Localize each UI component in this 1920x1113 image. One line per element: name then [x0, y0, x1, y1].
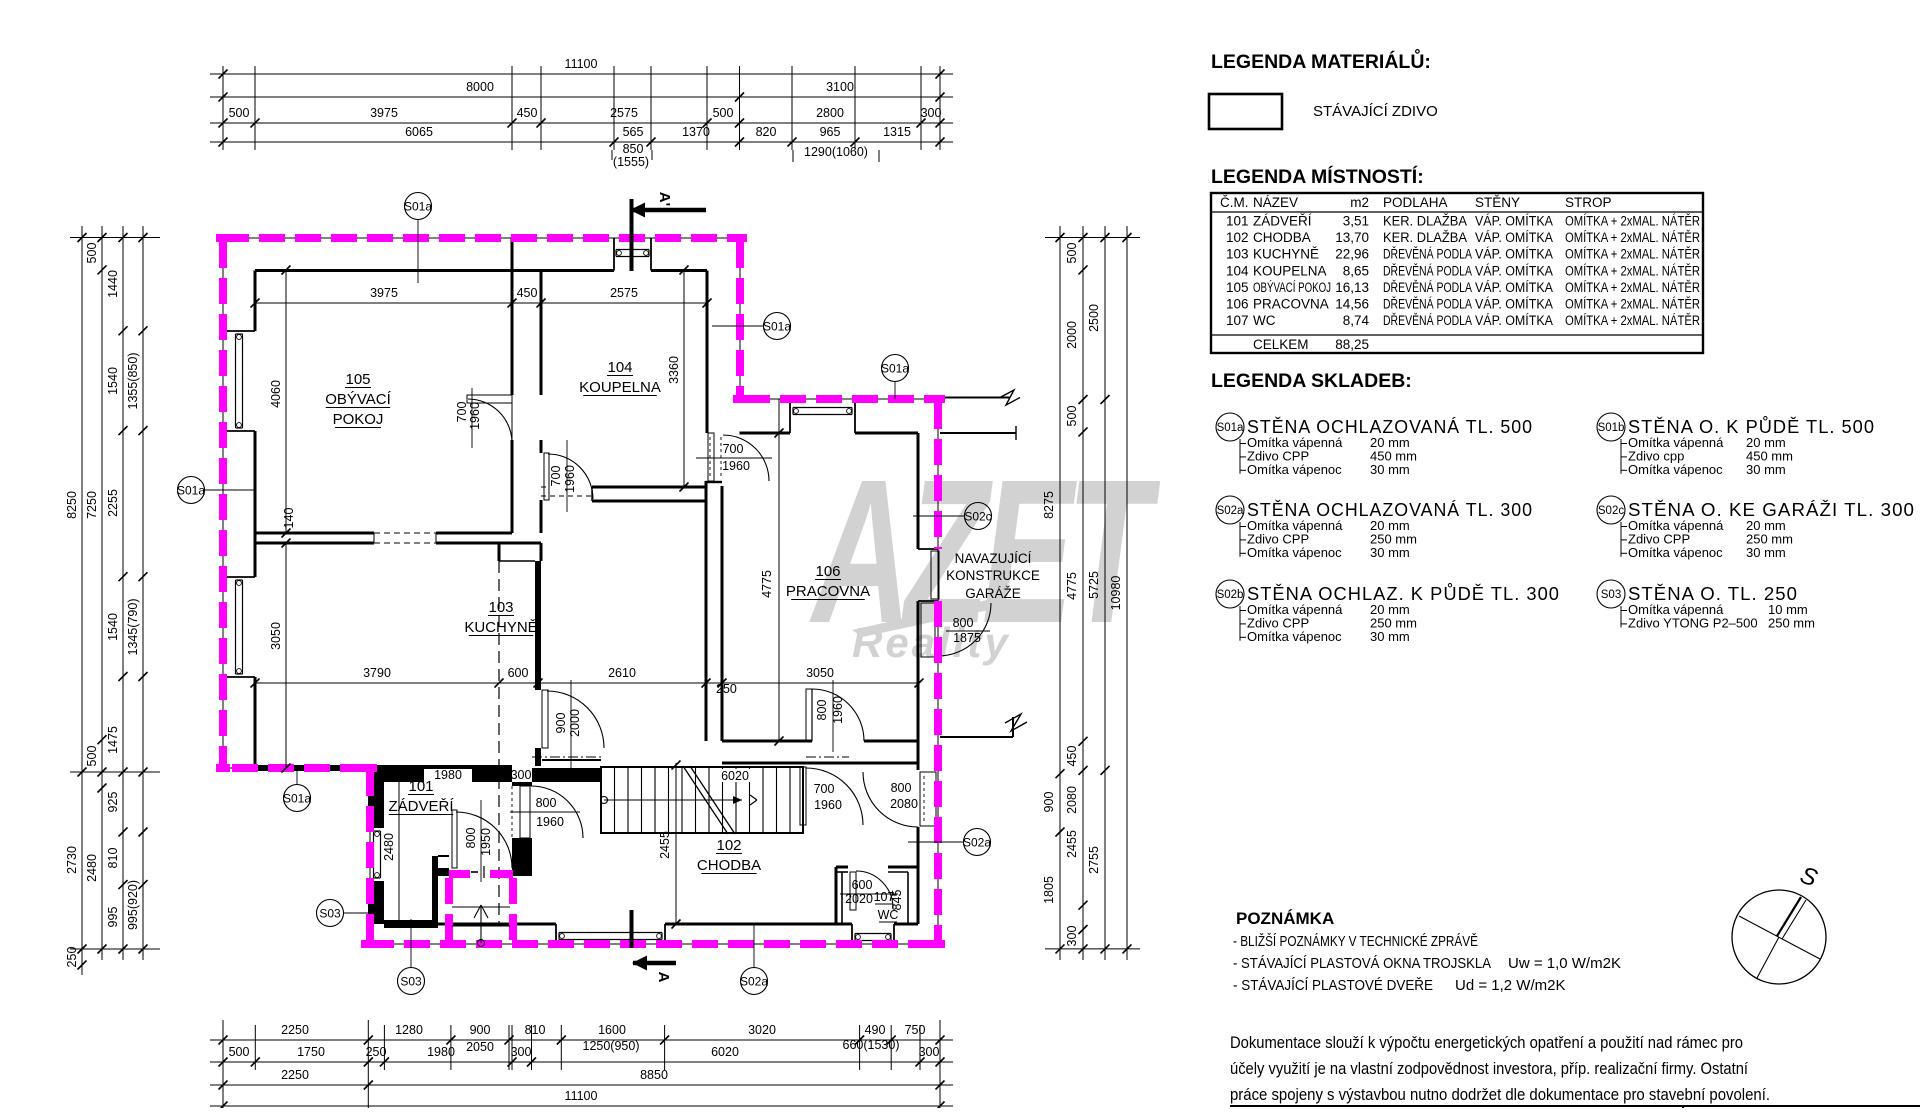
- marker S02a bottom: [740, 924, 768, 995]
- svg-text:1370: 1370: [682, 125, 710, 139]
- svg-text:1980: 1980: [427, 1045, 455, 1059]
- svg-text:S01a: S01a: [404, 200, 432, 214]
- svg-text:10980: 10980: [1109, 576, 1123, 611]
- marker S03 left: [317, 900, 369, 927]
- interior dimension row 3790/600/2610/250/3050: [251, 666, 924, 696]
- kuchyne east walls: [499, 543, 541, 924]
- svg-text:995(920): 995(920): [126, 880, 140, 930]
- svg-text:8275: 8275: [1042, 491, 1056, 519]
- room 106 pracovna: [786, 563, 870, 600]
- svg-text:OMÍTKA + 2xMAL. NÁTĚR: OMÍTKA + 2xMAL. NÁTĚR: [1565, 280, 1700, 295]
- svg-text:- STÁVAJÍCÍ PLASTOVÉ DVEŘE: - STÁVAJÍCÍ PLASTOVÉ DVEŘE: [1233, 977, 1433, 994]
- svg-text:450: 450: [1065, 746, 1079, 767]
- svg-text:OMÍTKA + 2xMAL. NÁTĚR: OMÍTKA + 2xMAL. NÁTĚR: [1565, 214, 1700, 229]
- svg-text:ZÁDVEŘÍ: ZÁDVEŘÍ: [1253, 214, 1312, 229]
- svg-text:S02a: S02a: [1217, 505, 1244, 517]
- svg-text:4060: 4060: [269, 380, 283, 408]
- svg-text:30 mm: 30 mm: [1746, 545, 1786, 560]
- footer note text: [1230, 1033, 1770, 1104]
- marker S01a bottom-left: [283, 771, 311, 812]
- svg-text:Omítka vápenoc: Omítka vápenoc: [1628, 462, 1723, 477]
- svg-text:5725: 5725: [1087, 571, 1101, 599]
- svg-text:102: 102: [1226, 230, 1249, 245]
- svg-text:2455: 2455: [658, 831, 672, 859]
- svg-text:700: 700: [814, 782, 835, 796]
- svg-text:m2: m2: [1350, 195, 1369, 210]
- svg-text:S03: S03: [1601, 589, 1621, 601]
- door garage (800/1875): [921, 603, 991, 657]
- svg-text:DŘEVĚNÁ PODLA: DŘEVĚNÁ PODLA: [1383, 247, 1472, 262]
- svg-text:STĚNY: STĚNY: [1475, 195, 1520, 210]
- svg-text:30 mm: 30 mm: [1370, 629, 1410, 644]
- svg-text:900: 900: [1042, 792, 1056, 813]
- svg-text:1750: 1750: [297, 1045, 325, 1059]
- svg-text:13,70: 13,70: [1335, 230, 1369, 245]
- interior dimension 3050 kuchyne: [269, 539, 291, 773]
- svg-text:CHODBA: CHODBA: [1253, 230, 1311, 245]
- svg-text:845: 845: [890, 890, 904, 911]
- svg-text:600: 600: [508, 666, 529, 680]
- svg-text:OMÍTKA + 2xMAL. NÁTĚR: OMÍTKA + 2xMAL. NÁTĚR: [1565, 247, 1700, 262]
- svg-text:PRACOVNA: PRACOVNA: [786, 583, 870, 600]
- svg-text:1355(850): 1355(850): [126, 353, 140, 410]
- svg-text:16,13: 16,13: [1335, 280, 1369, 295]
- svg-text:2575: 2575: [610, 106, 638, 120]
- garage annex walls: [940, 390, 1027, 737]
- svg-text:2500: 2500: [1087, 304, 1101, 332]
- title block top edge: [1230, 1106, 1920, 1108]
- window wc south: [855, 934, 891, 941]
- dimension 1980 zadveri: [424, 768, 472, 782]
- svg-text:S01a: S01a: [283, 792, 311, 806]
- svg-text:účely využití je na vlastní zo: účely využití je na vlastní zodpovědnost…: [1230, 1059, 1748, 1078]
- svg-text:1980: 1980: [434, 768, 462, 782]
- dimension chain top: [210, 57, 953, 169]
- svg-text:565: 565: [623, 125, 644, 139]
- dimension 300: [511, 768, 532, 782]
- kuchyne south wall: [255, 760, 601, 771]
- room 103 kuchyne: [464, 599, 537, 636]
- svg-text:22,96: 22,96: [1335, 247, 1369, 262]
- compass north arrow: [1732, 862, 1826, 984]
- svg-text:1290(1060): 1290(1060): [804, 145, 868, 159]
- magenta porch outline: [449, 874, 513, 941]
- svg-text:2755: 2755: [1087, 846, 1101, 874]
- dimension chain left: [65, 226, 160, 975]
- svg-text:1250(950): 1250(950): [583, 1039, 640, 1053]
- svg-text:STĚNA OCHLAZOVANÁ TL. 500: STĚNA OCHLAZOVANÁ TL. 500: [1247, 417, 1533, 437]
- marker S02c garage: [913, 503, 992, 530]
- svg-text:490: 490: [865, 1023, 886, 1037]
- svg-text:NAVAZUJÍCÍ: NAVAZUJÍCÍ: [955, 551, 1032, 566]
- svg-text:104: 104: [1226, 263, 1249, 278]
- svg-text:S02c: S02c: [1598, 505, 1624, 517]
- window west 1: [236, 334, 243, 428]
- svg-text:Č.M.: Č.M.: [1220, 195, 1249, 210]
- legend room table: [1211, 193, 1703, 353]
- svg-text:GARÁŽE: GARÁŽE: [965, 586, 1021, 601]
- svg-text:1540: 1540: [106, 613, 120, 641]
- dimension chain right: [1042, 226, 1140, 960]
- legend skladba S02c: [1597, 496, 1915, 560]
- svg-text:STĚNA OCHLAZOVANÁ TL. 300: STĚNA OCHLAZOVANÁ TL. 300: [1247, 500, 1533, 520]
- svg-text:4775: 4775: [1065, 572, 1079, 600]
- svg-text:2455: 2455: [1065, 830, 1079, 858]
- svg-text:1960: 1960: [814, 798, 842, 812]
- door 104 (700/1960) in wall 105/104: [455, 388, 512, 448]
- svg-text:103: 103: [488, 599, 513, 616]
- svg-text:850: 850: [623, 142, 644, 156]
- svg-text:500: 500: [85, 243, 99, 264]
- legend materials text: [1313, 103, 1438, 120]
- door pracovna (800/1960): [806, 680, 864, 752]
- svg-text:DŘEVĚNÁ PODLA: DŘEVĚNÁ PODLA: [1383, 313, 1472, 328]
- svg-text:2255: 2255: [106, 489, 120, 517]
- svg-text:KUCHYNĚ: KUCHYNĚ: [464, 619, 537, 636]
- svg-text:300: 300: [1065, 926, 1079, 947]
- svg-text:3050: 3050: [806, 666, 834, 680]
- svg-text:500: 500: [1065, 406, 1079, 427]
- svg-text:500: 500: [229, 1045, 250, 1059]
- svg-text:965: 965: [820, 125, 841, 139]
- svg-text:2000: 2000: [568, 709, 582, 737]
- door east (800/2080): [863, 772, 936, 827]
- room 102 chodba: [697, 837, 761, 874]
- stairs: [601, 766, 804, 834]
- svg-text:OMÍTKA + 2xMAL. NÁTĚR: OMÍTKA + 2xMAL. NÁTĚR: [1565, 313, 1700, 328]
- svg-text:VÁP. OMÍTKA: VÁP. OMÍTKA: [1475, 263, 1553, 278]
- svg-text:7250: 7250: [85, 491, 99, 519]
- svg-text:800: 800: [464, 828, 478, 849]
- svg-text:LEGENDA MÍSTNOSTÍ:: LEGENDA MÍSTNOSTÍ:: [1211, 165, 1424, 188]
- svg-text:VÁP. OMÍTKA: VÁP. OMÍTKA: [1475, 297, 1553, 312]
- svg-text:30 mm: 30 mm: [1370, 462, 1410, 477]
- svg-text:STĚNA O. KE GARÁŽI TL. 300: STĚNA O. KE GARÁŽI TL. 300: [1628, 500, 1915, 520]
- svg-text:S01a: S01a: [881, 362, 909, 376]
- svg-text:Dokumentace slouží k výpočtu e: Dokumentace slouží k výpočtu energetický…: [1230, 1033, 1743, 1052]
- svg-text:800: 800: [815, 700, 829, 721]
- svg-text:2020: 2020: [845, 892, 873, 906]
- legend skladba S01b: [1597, 413, 1875, 477]
- svg-text:11100: 11100: [565, 1089, 598, 1103]
- svg-text:KOUPELNA: KOUPELNA: [579, 379, 661, 396]
- svg-text:1960: 1960: [563, 465, 577, 493]
- svg-text:6065: 6065: [405, 125, 433, 139]
- legend skladba S03: [1597, 580, 1815, 630]
- svg-text:995: 995: [106, 907, 120, 928]
- svg-text:2250: 2250: [281, 1023, 309, 1037]
- svg-text:STĚNA O. TL. 250: STĚNA O. TL. 250: [1628, 584, 1798, 604]
- window north-right (pracovna): [793, 408, 852, 415]
- svg-text:6020: 6020: [721, 769, 749, 783]
- svg-text:2250: 2250: [281, 1068, 309, 1082]
- door hall to pracovna (700/1960): [696, 433, 772, 481]
- svg-text:8,74: 8,74: [1343, 313, 1370, 328]
- svg-text:Omítka vápenoc: Omítka vápenoc: [1247, 545, 1342, 560]
- legend skladby heading: [1211, 370, 1412, 392]
- svg-text:1315: 1315: [883, 125, 911, 139]
- svg-text:104: 104: [607, 359, 632, 376]
- svg-text:2730: 2730: [65, 846, 79, 874]
- svg-text:107: 107: [1226, 313, 1249, 328]
- svg-text:1280: 1280: [395, 1023, 423, 1037]
- svg-text:500: 500: [85, 746, 99, 767]
- wall between room 105 and 104: [512, 238, 541, 533]
- interior dimension 3360 koupelna: [667, 266, 689, 492]
- svg-text:VÁP. OMÍTKA: VÁP. OMÍTKA: [1475, 214, 1553, 229]
- svg-text:700: 700: [455, 402, 469, 423]
- svg-text:450: 450: [517, 106, 538, 120]
- interior dimension 4060: [269, 266, 291, 538]
- svg-text:250: 250: [366, 1045, 387, 1059]
- room 104 koupelna: [579, 359, 661, 396]
- svg-text:S02a: S02a: [740, 975, 768, 989]
- svg-text:88,25: 88,25: [1335, 337, 1369, 352]
- svg-text:DŘEVĚNÁ PODLA: DŘEVĚNÁ PODLA: [1383, 280, 1472, 295]
- svg-text:11100: 11100: [565, 57, 598, 71]
- svg-text:2610: 2610: [608, 666, 636, 680]
- svg-text:1960: 1960: [722, 459, 750, 473]
- svg-text:Omítka vápenoc: Omítka vápenoc: [1247, 629, 1342, 644]
- svg-text:1875: 1875: [953, 631, 981, 645]
- svg-text:OBÝVACÍ POKOJ: OBÝVACÍ POKOJ: [1253, 280, 1331, 295]
- interior dimension 4775 pracovna: [760, 399, 784, 746]
- window chodba south: [559, 933, 662, 940]
- svg-text:OMÍTKA + 2xMAL. NÁTĚR: OMÍTKA + 2xMAL. NÁTĚR: [1565, 297, 1700, 312]
- svg-text:Reality: Reality: [852, 619, 1011, 666]
- svg-text:500: 500: [713, 106, 734, 120]
- svg-text:S01a: S01a: [177, 484, 205, 498]
- svg-text:140: 140: [282, 508, 296, 529]
- svg-text:300: 300: [511, 768, 532, 782]
- svg-text:8,65: 8,65: [1343, 263, 1369, 278]
- svg-text:105: 105: [1226, 280, 1249, 295]
- svg-text:1440: 1440: [106, 270, 120, 298]
- svg-text:250 mm: 250 mm: [1768, 615, 1815, 630]
- pracovna west wall: [706, 481, 722, 741]
- door wc (600/2020): [840, 871, 898, 910]
- svg-text:2480: 2480: [85, 854, 99, 882]
- svg-text:DŘEVĚNÁ PODLA: DŘEVĚNÁ PODLA: [1383, 297, 1472, 312]
- svg-text:106: 106: [1226, 297, 1249, 312]
- svg-text:KONSTRUKCE: KONSTRUKCE: [946, 568, 1040, 583]
- porch steps and entry arrow: [452, 866, 510, 947]
- svg-text:800: 800: [536, 796, 557, 810]
- svg-text:102: 102: [716, 837, 741, 854]
- svg-text:2575: 2575: [610, 286, 638, 300]
- marker S02a right: [908, 829, 991, 856]
- svg-text:30 mm: 30 mm: [1746, 462, 1786, 477]
- svg-text:3790: 3790: [363, 666, 391, 680]
- svg-text:8000: 8000: [466, 80, 494, 94]
- marker S01a top: [404, 193, 432, 284]
- svg-text:POZNÁMKA: POZNÁMKA: [1236, 909, 1334, 928]
- svg-text:3975: 3975: [370, 106, 398, 120]
- svg-text:- STÁVAJÍCÍ PLASTOVÁ OKNA TROJ: - STÁVAJÍCÍ PLASTOVÁ OKNA TROJSKLA: [1233, 955, 1491, 972]
- svg-text:S03: S03: [400, 975, 422, 989]
- marker S01a left: [177, 477, 255, 504]
- svg-text:WC: WC: [1253, 313, 1276, 328]
- svg-text:3,51: 3,51: [1343, 214, 1369, 229]
- svg-text:750: 750: [905, 1023, 926, 1037]
- svg-text:OBÝVACÍ: OBÝVACÍ: [325, 391, 391, 408]
- door koupelna (700/1960): [544, 440, 593, 512]
- legend materials heading: [1211, 47, 1431, 73]
- svg-text:500: 500: [229, 106, 250, 120]
- svg-text:S02a: S02a: [963, 836, 991, 850]
- svg-text:810: 810: [106, 848, 120, 869]
- svg-text:3100: 3100: [826, 80, 854, 94]
- window zadveri west: [374, 831, 381, 878]
- svg-text:2080: 2080: [890, 797, 918, 811]
- legend skladba S02b: [1216, 580, 1560, 644]
- magenta existing-wall outline: [216, 234, 945, 948]
- legend skladba S02a: [1216, 496, 1533, 560]
- svg-text:A: A: [655, 972, 672, 983]
- svg-text:CHODBA: CHODBA: [697, 857, 761, 874]
- window west 2: [236, 580, 243, 674]
- svg-text:3050: 3050: [269, 622, 283, 650]
- svg-text:1345(790): 1345(790): [126, 599, 140, 656]
- svg-text:1960: 1960: [468, 402, 482, 430]
- svg-text:250: 250: [65, 947, 79, 968]
- svg-text:VÁP. OMÍTKA: VÁP. OMÍTKA: [1475, 230, 1553, 245]
- room 101 zadveri: [388, 778, 454, 815]
- door zadveri to chodba (800/1960): [510, 786, 583, 838]
- door zadveri interior (800/1950): [452, 800, 512, 882]
- exterior wall inner faces: [223, 238, 938, 944]
- svg-text:2800: 2800: [816, 106, 844, 120]
- door chodba right (700/1960): [800, 767, 863, 825]
- svg-text:ZÁDVEŘÍ: ZÁDVEŘÍ: [388, 798, 454, 815]
- room 107 wc: [874, 890, 904, 922]
- svg-text:2080: 2080: [1065, 786, 1079, 814]
- svg-text:S02c: S02c: [964, 510, 991, 524]
- svg-text:(1555): (1555): [613, 155, 649, 169]
- svg-text:300: 300: [919, 1045, 940, 1059]
- svg-text:1960: 1960: [536, 815, 564, 829]
- svg-text:300: 300: [511, 1045, 532, 1059]
- svg-text:450: 450: [517, 286, 538, 300]
- svg-text:30 mm: 30 mm: [1370, 545, 1410, 560]
- svg-text:700: 700: [723, 442, 744, 456]
- watermark AZET Reality: [809, 436, 1160, 666]
- svg-text:KER. DLAŽBA: KER. DLAŽBA: [1383, 230, 1467, 245]
- svg-text:103: 103: [1226, 247, 1249, 262]
- svg-text:KER. DLAŽBA: KER. DLAŽBA: [1383, 214, 1467, 229]
- svg-text:Uw = 1,0 W/m2K: Uw = 1,0 W/m2K: [1508, 955, 1621, 972]
- svg-text:S01b: S01b: [1598, 422, 1625, 434]
- svg-text:106: 106: [815, 563, 840, 580]
- section mark A bottom: [632, 910, 677, 983]
- wc walls: [836, 867, 918, 924]
- svg-text:1805: 1805: [1042, 876, 1056, 904]
- svg-text:Ud = 1,2 W/m2K: Ud = 1,2 W/m2K: [1455, 977, 1565, 994]
- svg-text:820: 820: [756, 125, 777, 139]
- interior dimension 2480 zadveri: [382, 782, 399, 924]
- svg-text:500: 500: [1065, 243, 1079, 264]
- svg-text:OMÍTKA + 2xMAL. NÁTĚR: OMÍTKA + 2xMAL. NÁTĚR: [1565, 263, 1700, 278]
- interior dimension 3975/450/2575: [251, 286, 712, 310]
- poznamka heading: [1236, 909, 1334, 928]
- svg-text:4775: 4775: [760, 570, 774, 598]
- svg-text:8250: 8250: [65, 491, 79, 519]
- svg-text:VÁP. OMÍTKA: VÁP. OMÍTKA: [1475, 313, 1553, 328]
- svg-text:KOUPELNA: KOUPELNA: [1253, 263, 1327, 278]
- interior dimension 2455 chodba: [658, 761, 681, 929]
- svg-text:CELKEM: CELKEM: [1253, 337, 1309, 352]
- svg-text:S01a: S01a: [1217, 422, 1244, 434]
- svg-text:800: 800: [891, 781, 912, 795]
- svg-text:PODLAHA: PODLAHA: [1383, 195, 1448, 210]
- svg-text:OMÍTKA + 2xMAL. NÁTĚR: OMÍTKA + 2xMAL. NÁTĚR: [1565, 230, 1700, 245]
- room 105 obyvaci pokoj: [325, 371, 391, 428]
- wall between room 105 and 103: [255, 533, 541, 543]
- svg-text:1600: 1600: [598, 1023, 626, 1037]
- svg-text:925: 925: [106, 792, 120, 813]
- svg-text:LEGENDA MATERIÁLŮ:: LEGENDA MATERIÁLŮ:: [1211, 47, 1431, 73]
- legend rooms heading: [1211, 165, 1424, 188]
- legend skladba S01a: [1216, 413, 1533, 477]
- svg-text:PRACOVNA: PRACOVNA: [1253, 297, 1329, 312]
- wall axis lines under magenta: [223, 238, 938, 944]
- poznamka notes: [1233, 933, 1621, 994]
- svg-text:1540: 1540: [106, 367, 120, 395]
- svg-text:8850: 8850: [640, 1068, 668, 1082]
- svg-text:101: 101: [1226, 214, 1249, 229]
- svg-text:DŘEVĚNÁ PODLA: DŘEVĚNÁ PODLA: [1383, 263, 1472, 278]
- door kuchyne to chodba (900/2000): [542, 680, 604, 770]
- svg-text:STÁVAJÍCÍ ZDIVO: STÁVAJÍCÍ ZDIVO: [1313, 103, 1438, 120]
- marker S03 bottom: [398, 919, 425, 995]
- svg-text:Zdivo YTONG P2–500: Zdivo YTONG P2–500: [1628, 615, 1758, 630]
- svg-text:600: 600: [852, 878, 873, 892]
- svg-text:2480: 2480: [382, 833, 396, 861]
- svg-text:Omítka vápenoc: Omítka vápenoc: [1628, 545, 1723, 560]
- svg-text:POKOJ: POKOJ: [333, 411, 384, 428]
- svg-text:250: 250: [716, 682, 737, 696]
- svg-text:VÁP. OMÍTKA: VÁP. OMÍTKA: [1475, 280, 1553, 295]
- svg-text:VÁP. OMÍTKA: VÁP. OMÍTKA: [1475, 247, 1553, 262]
- axis dash-dot lines chodba: [532, 756, 849, 758]
- svg-text:Omítka vápenoc: Omítka vápenoc: [1247, 462, 1342, 477]
- svg-text:STĚNA O. K PŮDĚ TL. 500: STĚNA O. K PŮDĚ TL. 500: [1628, 416, 1875, 437]
- svg-text:práce spojeny s výstavbou nutn: práce spojeny s výstavbou nutno dodržet …: [1230, 1085, 1770, 1104]
- svg-text:S01a: S01a: [763, 320, 791, 334]
- svg-text:3975: 3975: [370, 286, 398, 300]
- marker S01a right-top: [712, 313, 791, 340]
- svg-text:S03: S03: [319, 907, 341, 921]
- svg-text:3360: 3360: [667, 356, 681, 384]
- svg-text:S02b: S02b: [1217, 589, 1244, 601]
- interior dimension 140: [282, 508, 296, 529]
- svg-text:2000: 2000: [1065, 321, 1079, 349]
- pracovna south wall: [722, 689, 918, 763]
- section mark A-prime top: [630, 192, 706, 271]
- svg-text:6020: 6020: [711, 1045, 739, 1059]
- marker S01a right-2: [881, 355, 909, 400]
- svg-text:700: 700: [549, 466, 563, 487]
- garage label: [946, 551, 1040, 601]
- svg-text:3020: 3020: [748, 1023, 776, 1037]
- svg-text:- BLIŽŠÍ POZNÁMKY V TECHNICKÉ: - BLIŽŠÍ POZNÁMKY V TECHNICKÉ ZPRÁVĚ: [1233, 933, 1478, 950]
- chimney vent window top: [616, 250, 649, 257]
- legend materials symbol: [1209, 94, 1282, 129]
- svg-text:NÁZEV: NÁZEV: [1253, 195, 1298, 210]
- svg-text:A': A': [656, 192, 673, 206]
- svg-text:KUCHYNĚ: KUCHYNĚ: [1253, 247, 1319, 262]
- svg-text:810: 810: [525, 1023, 546, 1037]
